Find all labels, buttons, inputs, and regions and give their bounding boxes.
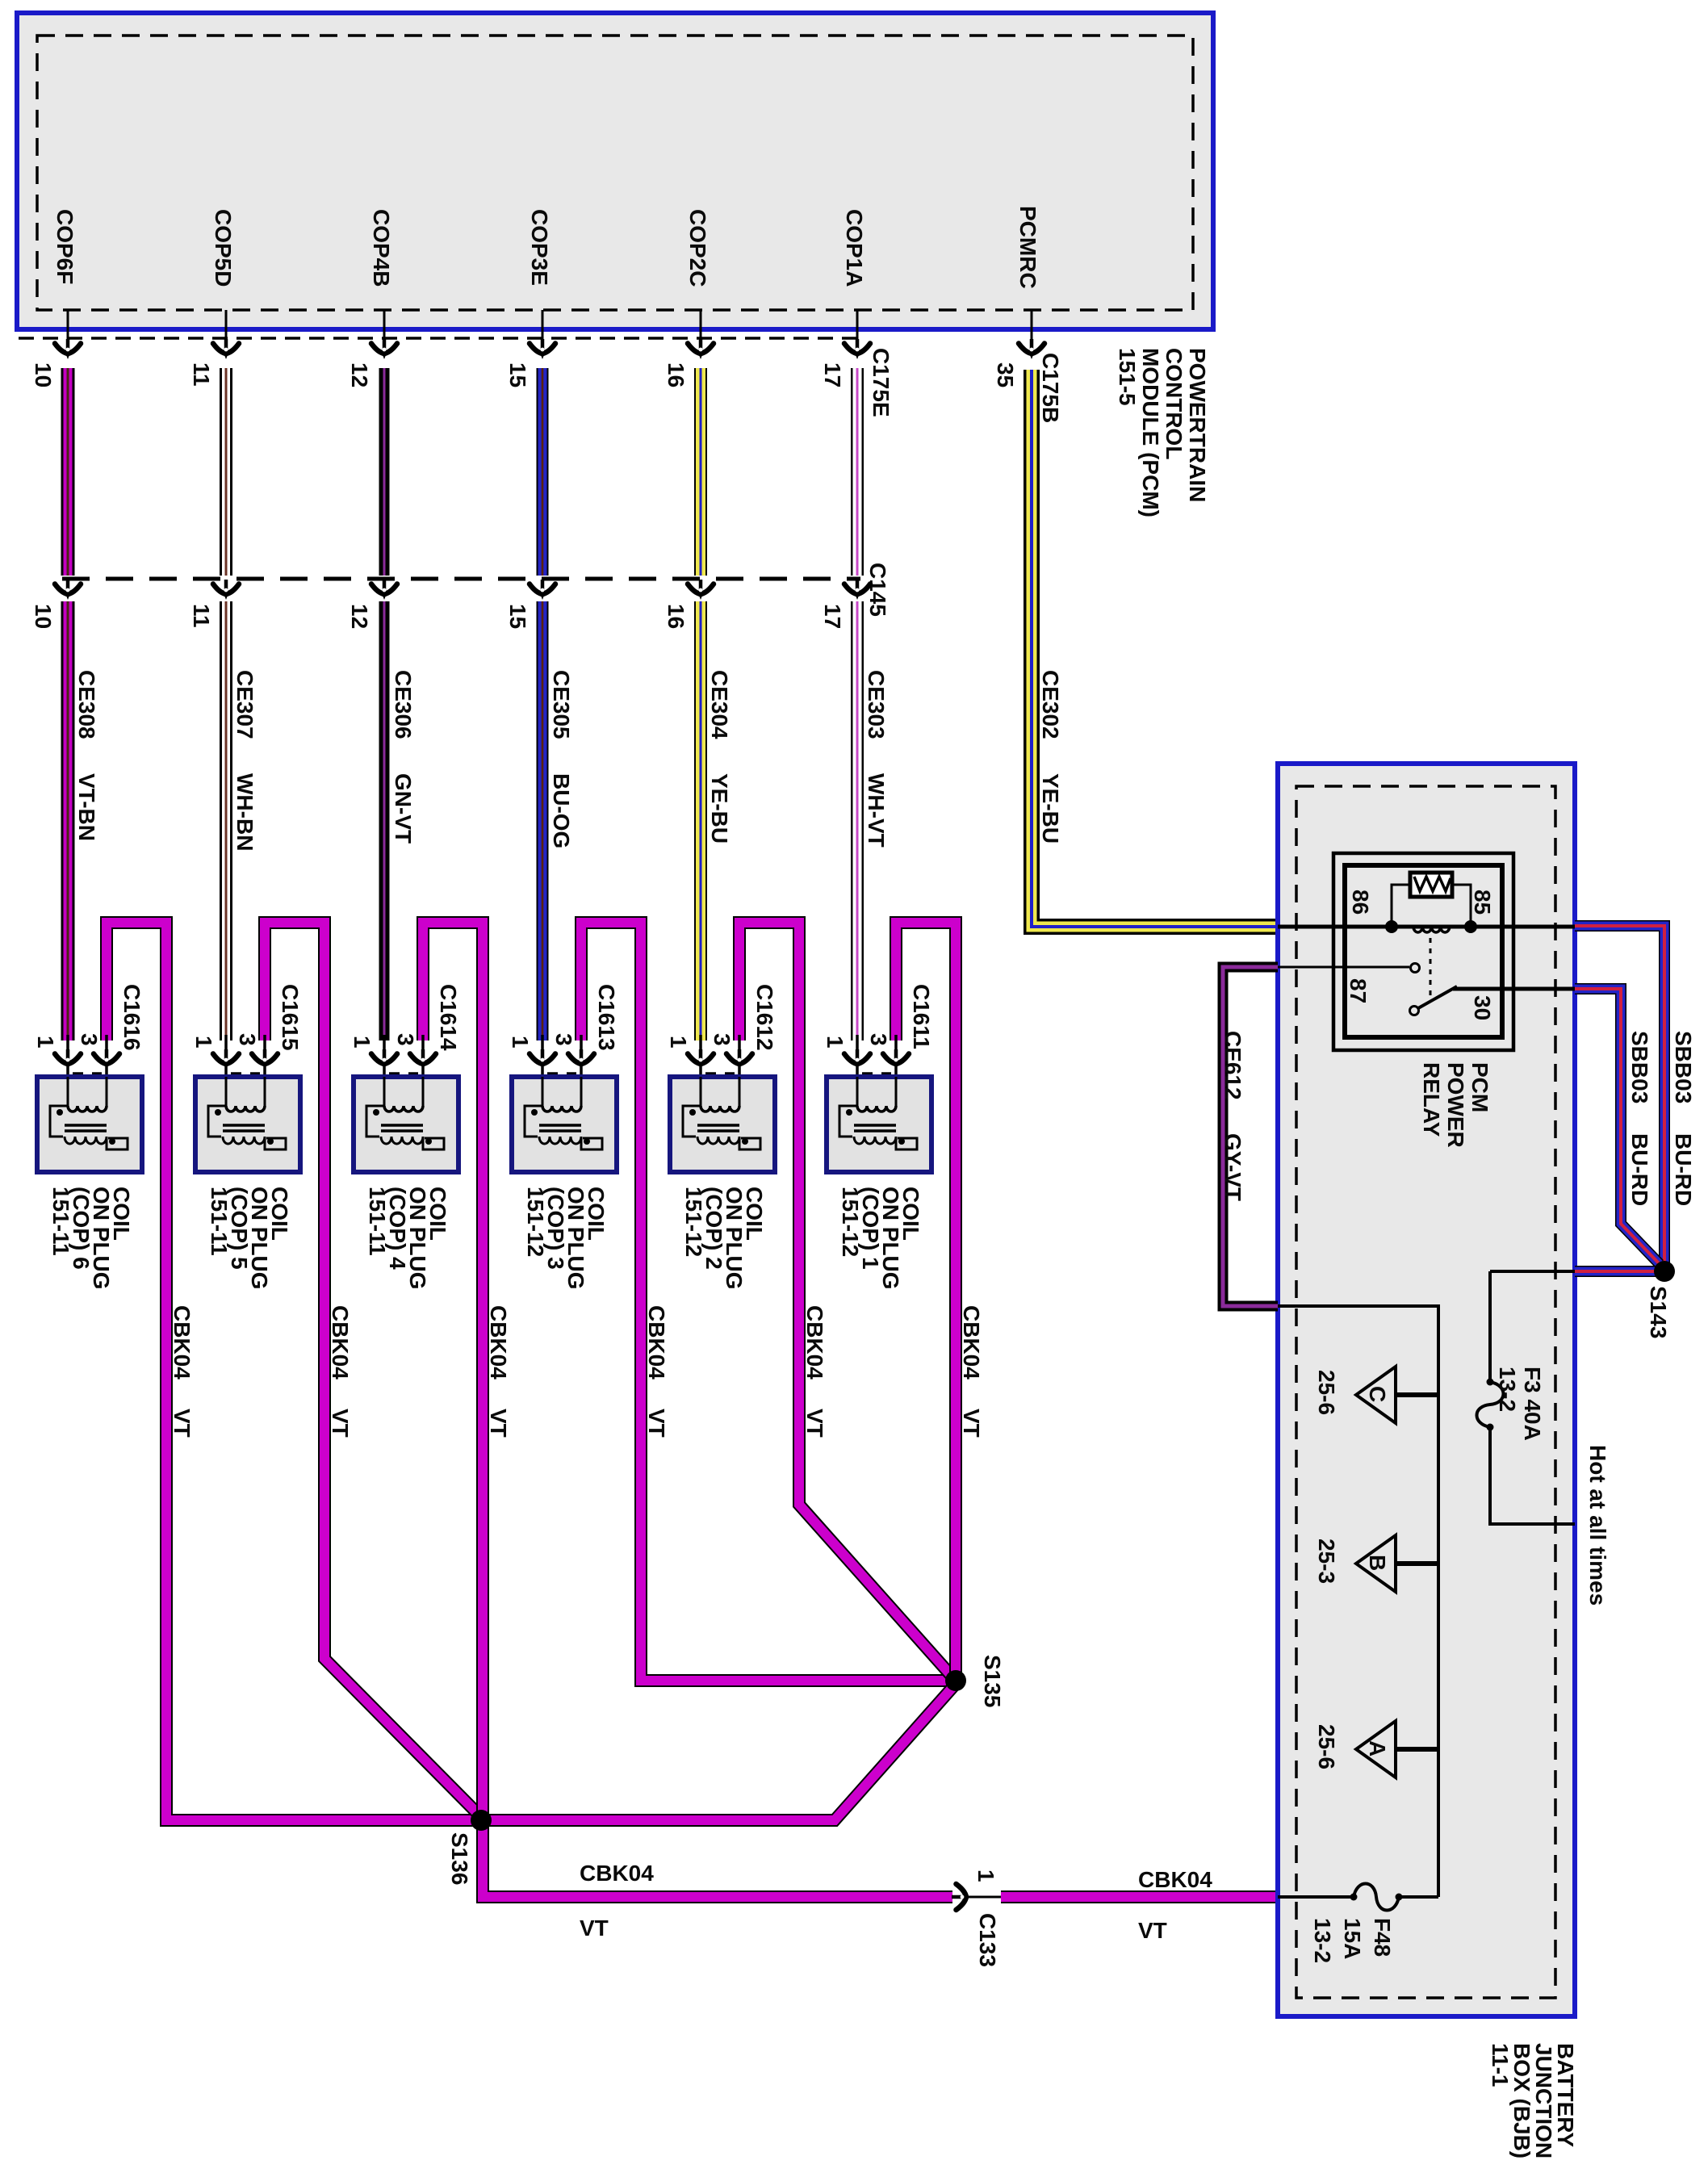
connector C145 pin 12 arrow xyxy=(371,580,397,600)
svg-text:BU-RD: BU-RD xyxy=(1627,1133,1652,1206)
wire CE307 WH-BN lower segment xyxy=(220,601,232,1040)
svg-text:11: 11 xyxy=(189,604,214,628)
pin 3 label coil 2 xyxy=(710,1033,735,1046)
relay pin 30 label xyxy=(1470,995,1495,1020)
svg-text:CE302: CE302 xyxy=(1038,670,1063,739)
wire CBK04 VT link splice S135 to splice S136 xyxy=(481,1684,956,1820)
relay armature dashed link xyxy=(1430,938,1432,997)
svg-text:COP2C: COP2C xyxy=(685,209,710,287)
svg-text:COILON PLUG(COP) 5151-11: COILON PLUG(COP) 5151-11 xyxy=(207,1187,292,1290)
coil on plug (COP) 6 connector C1616 pins xyxy=(55,1035,119,1077)
relay pin 87 terminal xyxy=(1278,964,1420,973)
svg-text:87: 87 xyxy=(1346,978,1371,1003)
coil on plug (COP) 5 label xyxy=(207,1187,292,1290)
wire CE307 WH-BN upper segment xyxy=(220,368,232,576)
splice S135 xyxy=(945,1670,966,1691)
battery junction box (BJB) xyxy=(1278,764,1575,2016)
wire label SBB03 BU-RD outer xyxy=(1671,1031,1696,1206)
fuse F3 40A xyxy=(1477,1271,1576,1524)
coil on plug (COP) 6 label xyxy=(48,1187,134,1290)
svg-text:PCMRC: PCMRC xyxy=(1015,206,1040,289)
PCM module label xyxy=(1115,348,1210,517)
relay pin 86 label xyxy=(1348,890,1373,915)
pin number 10 below C145 xyxy=(31,604,56,629)
wire SBB03 BU-RD from relay 85 to S143 xyxy=(1575,926,1664,1266)
svg-text:VT: VT xyxy=(328,1409,353,1438)
svg-text:CBK04: CBK04 xyxy=(328,1305,353,1380)
svg-text:3: 3 xyxy=(235,1033,260,1046)
svg-text:15: 15 xyxy=(505,604,530,629)
coil on plug (COP) 1 connector C1611 pins xyxy=(844,1035,909,1077)
wire CBK04 VT from connector C133 to BJB fuse F48 xyxy=(952,1896,1278,1899)
svg-text:C1613: C1613 xyxy=(594,984,619,1051)
pin number 10 at C175E xyxy=(31,362,56,387)
coil on plug (COP) 2 connector C1612 pins xyxy=(688,1035,752,1077)
connector C133 label xyxy=(975,1913,1000,1967)
pin number 15 below C145 xyxy=(505,604,530,629)
svg-text:C175E: C175E xyxy=(869,348,894,417)
svg-text:10: 10 xyxy=(31,362,56,387)
svg-text:1: 1 xyxy=(33,1036,58,1049)
wire CBK04 VT from coil 3 pin 3 to splice S135 xyxy=(581,923,956,1681)
connector C133 arrow xyxy=(952,1884,972,1910)
svg-text:1: 1 xyxy=(191,1036,216,1049)
svg-text:S135: S135 xyxy=(980,1655,1005,1707)
wire label CE307 WH-BN xyxy=(232,670,257,851)
connector C145 pin 11 arrow xyxy=(213,580,239,600)
svg-text:COP1A: COP1A xyxy=(842,209,867,287)
svg-text:COP4B: COP4B xyxy=(369,209,394,287)
coil on plug (COP) 3 label xyxy=(523,1187,609,1290)
wire CE308 VT-BN lower segment xyxy=(61,601,75,1040)
wire CE304 YE-BU lower segment xyxy=(694,601,707,1040)
wire CBK04 VT from coil 4 pin 3 through splice S136 to connector C133 xyxy=(423,923,952,1897)
svg-text:17: 17 xyxy=(820,604,845,629)
pin number 16 below C145 xyxy=(664,604,689,629)
svg-text:COP3E: COP3E xyxy=(527,209,552,286)
svg-text:WH-BN: WH-BN xyxy=(232,773,257,851)
wire label CE306 GN-VT xyxy=(391,670,416,844)
svg-text:1: 1 xyxy=(973,1869,998,1882)
svg-text:VT: VT xyxy=(580,1916,609,1941)
bus tap A label 25-6 xyxy=(1314,1724,1339,1769)
svg-text:Hot at all times: Hot at all times xyxy=(1585,1445,1610,1606)
wire label CBK04 VT left of C133 xyxy=(580,1861,654,1941)
svg-text:CE307: CE307 xyxy=(232,670,257,739)
wire CE304 YE-BU upper segment xyxy=(694,368,707,576)
svg-text:VT: VT xyxy=(170,1409,195,1438)
pin 3 label coil 5 xyxy=(235,1033,260,1046)
wire CE302 YE-BU xyxy=(1032,370,1278,927)
wire CBK04 VT from coil 6 pin 3 to splice S136 xyxy=(107,923,481,1820)
pin 1 label coil 5 xyxy=(191,1036,216,1049)
coil on plug (COP) 1 box xyxy=(827,1077,931,1172)
svg-text:BU-RD: BU-RD xyxy=(1671,1133,1696,1206)
coil on plug (COP) 6 box xyxy=(37,1077,142,1172)
wire SBB03 BU-RD from S143 to fuse F3 xyxy=(1575,1266,1660,1277)
svg-text:3: 3 xyxy=(710,1033,735,1046)
connector C1613 label xyxy=(594,984,619,1051)
svg-text:WH-VT: WH-VT xyxy=(864,773,889,848)
svg-text:VT: VT xyxy=(1138,1918,1167,1943)
connector C145 pin 17 arrow xyxy=(844,580,870,600)
svg-text:COILON PLUG(COP) 2151-12: COILON PLUG(COP) 2151-12 xyxy=(681,1187,767,1290)
svg-text:BU-OG: BU-OG xyxy=(549,773,574,848)
battery junction box label xyxy=(1488,2043,1578,2158)
PCM module box xyxy=(17,13,1213,329)
wire CE305 BU-OG lower segment xyxy=(537,601,549,1040)
coil on plug (COP) 4 label xyxy=(365,1187,450,1290)
svg-text:COILON PLUG(COP) 4151-11: COILON PLUG(COP) 4151-11 xyxy=(365,1187,450,1290)
wire label SBB03 BU-RD inner xyxy=(1627,1031,1652,1206)
svg-text:1: 1 xyxy=(350,1036,375,1049)
svg-text:YE-BU: YE-BU xyxy=(707,773,732,844)
connector C175B label xyxy=(1038,353,1063,423)
svg-text:25-6: 25-6 xyxy=(1314,1724,1339,1769)
svg-text:85: 85 xyxy=(1470,890,1495,915)
svg-text:VT: VT xyxy=(486,1409,511,1438)
PCM pin COP4B xyxy=(369,209,397,359)
PCM pin COP6F xyxy=(52,209,81,359)
splice S136 xyxy=(471,1810,492,1831)
pin number 11 below C145 xyxy=(189,604,214,628)
pin number 35 at C175B xyxy=(993,362,1018,387)
wire label CE303 WH-VT xyxy=(864,670,889,848)
svg-text:COILON PLUG(COP) 1151-12: COILON PLUG(COP) 1151-12 xyxy=(838,1187,923,1290)
splice S136 label xyxy=(447,1832,472,1885)
svg-text:35: 35 xyxy=(993,362,1018,387)
pin 3 label coil 4 xyxy=(393,1033,418,1046)
pin number 17 at C175E xyxy=(820,362,845,387)
wire CE303 WH-VT upper segment xyxy=(851,368,864,576)
svg-text:11: 11 xyxy=(189,362,214,387)
svg-text:CBK04: CBK04 xyxy=(170,1305,195,1380)
svg-text:COP5D: COP5D xyxy=(211,209,236,287)
coil on plug (COP) 2 box xyxy=(670,1077,775,1172)
pin number 12 at C175E xyxy=(347,362,372,387)
pin 1 label coil 4 xyxy=(350,1036,375,1049)
svg-text:CE612: CE612 xyxy=(1220,1031,1245,1100)
connector C1615 label xyxy=(278,984,303,1051)
svg-text:BATTERYJUNCTIONBOX (BJB)11-1: BATTERYJUNCTIONBOX (BJB)11-1 xyxy=(1488,2043,1578,2158)
wire label CBK04 VT on run 4 xyxy=(486,1305,511,1438)
svg-text:SBB03: SBB03 xyxy=(1671,1031,1696,1103)
pin 1 label coil 3 xyxy=(508,1036,533,1049)
svg-text:12: 12 xyxy=(347,362,372,387)
svg-text:B: B xyxy=(1365,1555,1390,1571)
connector C1611 label xyxy=(909,984,934,1049)
svg-text:COILON PLUG(COP) 3151-12: COILON PLUG(COP) 3151-12 xyxy=(523,1187,609,1290)
wire CE303 WH-VT lower segment xyxy=(851,601,864,1040)
connector C1612 label xyxy=(752,984,777,1051)
PCM pin COP3E xyxy=(527,209,555,359)
wire label CE304 YE-BU xyxy=(707,670,732,844)
svg-text:16: 16 xyxy=(664,362,689,387)
pin 1 label coil 6 xyxy=(33,1036,58,1049)
fuse F48 label xyxy=(1310,1918,1395,1963)
svg-text:VT: VT xyxy=(644,1409,669,1438)
svg-text:CBK04: CBK04 xyxy=(580,1861,654,1886)
svg-text:CE305: CE305 xyxy=(549,670,574,739)
svg-text:C1611: C1611 xyxy=(909,984,934,1049)
pin 3 label coil 1 xyxy=(866,1033,891,1046)
fuse F48 15A xyxy=(1278,1884,1438,1911)
svg-text:30: 30 xyxy=(1470,995,1495,1020)
BJB internal bus xyxy=(1278,1306,1438,1897)
svg-text:C1614: C1614 xyxy=(436,984,461,1051)
connector C145 label xyxy=(865,563,890,617)
svg-text:3: 3 xyxy=(866,1033,891,1046)
coil on plug (COP) 5 connector C1615 pins xyxy=(213,1035,278,1077)
svg-text:VT: VT xyxy=(959,1409,984,1438)
coil on plug (COP) 2 label xyxy=(681,1187,767,1290)
wire label CBK04 VT on run 2 xyxy=(802,1305,827,1438)
connector C175E dashed line xyxy=(19,337,859,340)
splice S135 label xyxy=(980,1655,1005,1707)
wire label CE308 VT-BN xyxy=(74,670,99,841)
relay coil xyxy=(1413,927,1450,932)
svg-text:C1616: C1616 xyxy=(119,984,144,1051)
wire label CE302 YE-BU xyxy=(1038,670,1063,844)
svg-text:12: 12 xyxy=(347,604,372,629)
wire label CBK04 VT right of C133 xyxy=(1138,1867,1212,1943)
relay suppression resistor xyxy=(1385,873,1477,933)
wire label CBK04 VT on run 6 xyxy=(170,1305,195,1438)
svg-text:GY-VT: GY-VT xyxy=(1220,1133,1245,1201)
wire label CBK04 VT on run 5 xyxy=(328,1305,353,1438)
pin 3 label coil 6 xyxy=(77,1033,102,1046)
svg-text:C: C xyxy=(1365,1386,1390,1402)
wire label CE305 BU-OG xyxy=(549,670,574,848)
bus tap C label 25-6 xyxy=(1314,1370,1339,1415)
svg-text:COILON PLUG(COP) 6151-11: COILON PLUG(COP) 6151-11 xyxy=(48,1187,134,1290)
svg-text:POWERTRAINCONTROLMODULE (PCM)1: POWERTRAINCONTROLMODULE (PCM)151-5 xyxy=(1115,348,1210,517)
connector C1614 label xyxy=(436,984,461,1051)
svg-text:CE303: CE303 xyxy=(864,670,889,739)
wire CE308 VT-BN upper segment xyxy=(61,368,75,576)
wire CE305 BU-OG upper segment xyxy=(537,368,549,576)
svg-text:CBK04: CBK04 xyxy=(1138,1867,1212,1892)
svg-text:16: 16 xyxy=(664,604,689,629)
pin number 17 below C145 xyxy=(820,604,845,629)
svg-text:C133: C133 xyxy=(975,1913,1000,1967)
svg-text:1: 1 xyxy=(666,1036,691,1049)
connector C145 pin 15 arrow xyxy=(530,580,555,600)
wire CE306 GN-VT lower segment xyxy=(379,601,390,1040)
PCM power relay label xyxy=(1419,1062,1492,1148)
wire label CE612 GY-VT xyxy=(1220,1031,1245,1201)
PCM pin PCMRC xyxy=(1015,206,1044,359)
PCM power relay box xyxy=(1333,853,1513,1050)
svg-text:CE306: CE306 xyxy=(391,670,416,739)
svg-text:C175B: C175B xyxy=(1038,353,1063,423)
svg-text:S136: S136 xyxy=(447,1832,472,1885)
wire CBK04 VT from coil 5 pin 3 to splice S136 xyxy=(265,923,481,1817)
PCM pin COP2C xyxy=(685,209,714,359)
splice S143 xyxy=(1654,1261,1675,1282)
svg-text:10: 10 xyxy=(31,604,56,629)
coil on plug (COP) 4 box xyxy=(354,1077,458,1172)
relay coil line (pin 86 to pin 85) xyxy=(1278,925,1575,929)
wire CE612 GY-VT xyxy=(1223,967,1278,1306)
PCM pin COP5D xyxy=(211,209,239,359)
relay pin 85 label xyxy=(1470,890,1495,915)
Hot at all times label xyxy=(1585,1445,1610,1606)
pin number 16 at C175E xyxy=(664,362,689,387)
svg-text:17: 17 xyxy=(820,362,845,387)
splice S143 label xyxy=(1646,1286,1671,1338)
relay switch and pin 30 xyxy=(1410,986,1576,1015)
connector C1616 label xyxy=(119,984,144,1051)
pin 1 label coil 1 xyxy=(823,1036,848,1049)
bus tap triangle C xyxy=(1356,1367,1438,1423)
connector C145 pin 16 arrow xyxy=(688,580,714,600)
coil on plug (COP) 3 box xyxy=(512,1077,617,1172)
wire label CBK04 VT on run 3 xyxy=(644,1305,669,1438)
svg-text:C1612: C1612 xyxy=(752,984,777,1051)
svg-text:3: 3 xyxy=(77,1033,102,1046)
pin number 12 below C145 xyxy=(347,604,372,629)
svg-text:CBK04: CBK04 xyxy=(486,1305,511,1380)
svg-text:CBK04: CBK04 xyxy=(802,1305,827,1380)
pin 3 label coil 3 xyxy=(551,1033,576,1046)
svg-text:S143: S143 xyxy=(1646,1286,1671,1338)
wire CBK04 VT from coil 1 pin 3 to splice S135 xyxy=(896,923,956,1681)
pin number 15 at C175E xyxy=(505,362,530,387)
PCM pin COP1A xyxy=(842,209,870,359)
connector C175E label xyxy=(869,348,894,417)
svg-text:F4815A13-2: F4815A13-2 xyxy=(1310,1918,1395,1963)
svg-text:SBB03: SBB03 xyxy=(1627,1031,1652,1103)
svg-text:GN-VT: GN-VT xyxy=(391,773,416,844)
svg-text:86: 86 xyxy=(1348,890,1373,915)
svg-text:COP6F: COP6F xyxy=(52,209,77,284)
svg-text:25-3: 25-3 xyxy=(1314,1539,1339,1584)
svg-text:CE304: CE304 xyxy=(707,670,732,739)
svg-text:YE-BU: YE-BU xyxy=(1038,773,1063,844)
coil on plug (COP) 1 label xyxy=(838,1187,923,1290)
pin number 11 at C175E xyxy=(189,362,214,387)
coil on plug (COP) 4 connector C1614 pins xyxy=(371,1035,436,1077)
connector C145 dashed line xyxy=(62,577,860,581)
svg-text:3: 3 xyxy=(551,1033,576,1046)
svg-text:C1615: C1615 xyxy=(278,984,303,1051)
coil on plug (COP) 3 connector C1613 pins xyxy=(530,1035,594,1077)
svg-text:15: 15 xyxy=(505,362,530,387)
fuse F3 label xyxy=(1495,1367,1545,1441)
bus tap B label 25-3 xyxy=(1314,1539,1339,1584)
relay pin 87 label xyxy=(1346,978,1371,1003)
wire CBK04 VT from coil 2 pin 3 to splice S135 xyxy=(739,923,956,1681)
svg-text:A: A xyxy=(1365,1740,1390,1756)
wire label CBK04 VT on run 1 xyxy=(959,1305,984,1438)
connector C133 pin 1 label xyxy=(973,1869,998,1882)
svg-text:25-6: 25-6 xyxy=(1314,1370,1339,1415)
wire CE306 GN-VT upper segment xyxy=(379,368,390,576)
bus tap triangle A xyxy=(1356,1721,1438,1777)
svg-text:1: 1 xyxy=(823,1036,848,1049)
connector C145 pin 10 arrow xyxy=(55,580,81,600)
pin 1 label coil 2 xyxy=(666,1036,691,1049)
svg-text:CBK04: CBK04 xyxy=(644,1305,669,1380)
wire SBB03 BU-RD from relay 30 to S143 xyxy=(1575,989,1660,1264)
svg-text:1: 1 xyxy=(508,1036,533,1049)
bus tap triangle B xyxy=(1356,1535,1438,1592)
svg-text:VT-BN: VT-BN xyxy=(74,773,99,841)
svg-text:C145: C145 xyxy=(865,563,890,617)
svg-text:CE308: CE308 xyxy=(74,670,99,739)
svg-text:CBK04: CBK04 xyxy=(959,1305,984,1380)
svg-text:VT: VT xyxy=(802,1409,827,1438)
coil on plug (COP) 5 box xyxy=(195,1077,300,1172)
svg-text:3: 3 xyxy=(393,1033,418,1046)
